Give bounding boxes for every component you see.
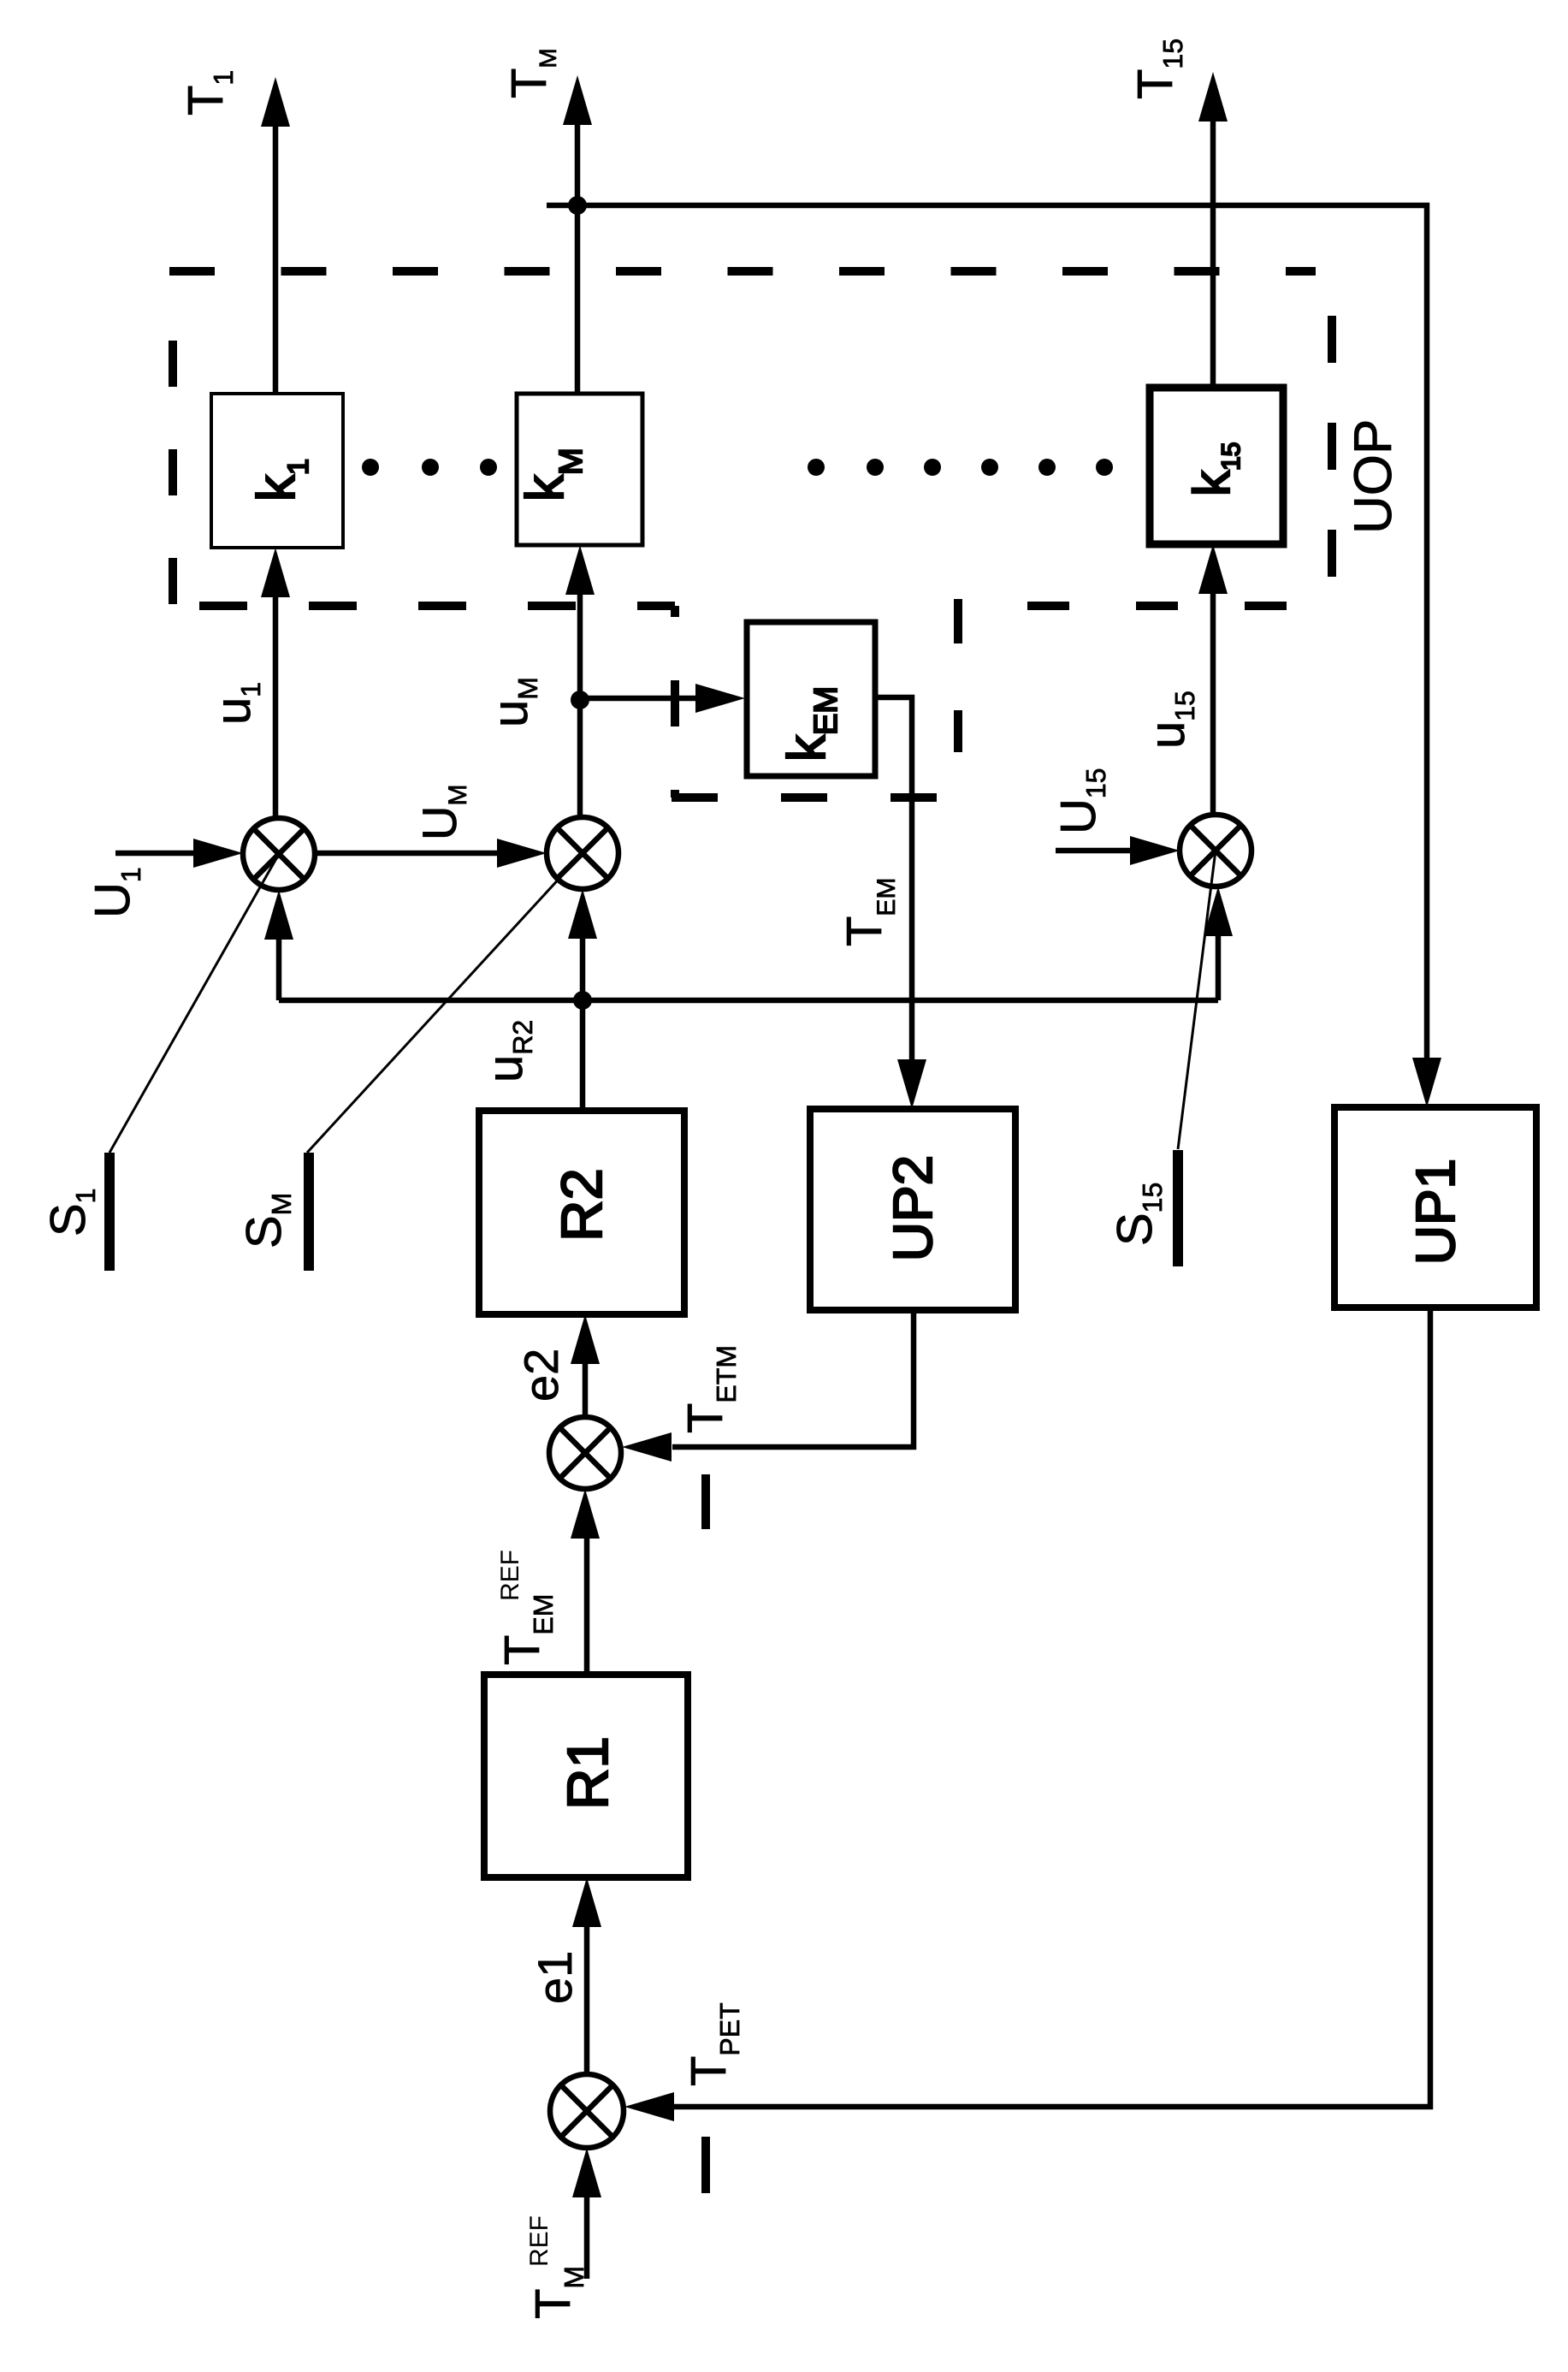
- svg-text:e1: e1: [528, 1951, 582, 2004]
- svg-text:UP1: UP1: [1405, 1159, 1466, 1266]
- svg-text:REF: REF: [525, 2215, 553, 2267]
- svg-text:UOP: UOP: [1344, 419, 1403, 534]
- svg-text:UP2: UP2: [882, 1155, 944, 1262]
- svg-text:REF: REF: [496, 1550, 524, 1601]
- svg-text:R1: R1: [556, 1736, 620, 1810]
- svg-text:e2: e2: [514, 1349, 568, 1402]
- svg-text:R2: R2: [550, 1168, 614, 1242]
